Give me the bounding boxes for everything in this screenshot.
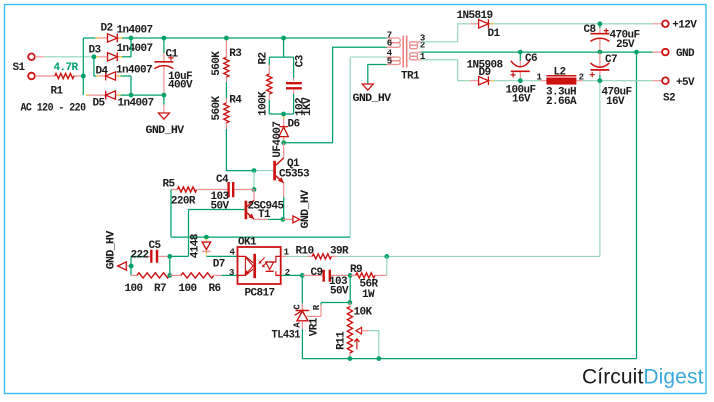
svg-text:220R: 220R: [171, 196, 196, 208]
wire snubber frame: [269, 38, 293, 114]
node C6 top: [518, 50, 523, 55]
wire AC1 from S1 top to bridge: [45, 56, 94, 58]
wire ground link vertical: [130, 256, 132, 275]
svg-text:TL431: TL431: [272, 329, 301, 341]
diode D7 4148: [189, 233, 225, 270]
wire OK1 pin2 to C9: [281, 274, 302, 276]
wire R10-R9 vertical: [386, 256, 388, 275]
svg-text:1KV: 1KV: [302, 97, 314, 116]
wire R4 to Q1 base: [226, 129, 254, 171]
node bridge DC+: [129, 36, 134, 41]
wire C9 node down to node B: [349, 275, 351, 302]
wire L2 to +5V: [583, 80, 653, 82]
node bridge DC-: [129, 93, 134, 98]
resistor R5 220R: [163, 179, 228, 208]
capacitor C7 470uF 16V: [590, 52, 632, 108]
wire node B to TL431 ref: [321, 302, 350, 304]
regulator VR1 TL431: [272, 303, 323, 359]
svg-text:+5V: +5V: [676, 77, 695, 89]
wire TR1 pin3 to D1: [421, 24, 470, 42]
logo CircuitDigest: [582, 366, 704, 389]
svg-text:UF4007: UF4007: [272, 122, 284, 158]
ground GND_HV under C1: [146, 95, 185, 137]
svg-text:C4: C4: [216, 174, 229, 186]
wire +12V rail: [494, 23, 653, 25]
diode D4 1n4007: [94, 64, 152, 95]
svg-text:C5: C5: [149, 240, 162, 252]
resistor R1: [45, 62, 83, 98]
svg-text:C6: C6: [525, 53, 537, 65]
svg-text:4148: 4148: [189, 233, 201, 258]
transistor T1 2SC945: [246, 190, 285, 222]
svg-text:1n4007: 1n4007: [117, 43, 153, 55]
wire T1 base down to C5 row: [170, 210, 189, 257]
node R10 right: [384, 254, 389, 259]
svg-text:D9: D9: [479, 67, 491, 79]
svg-text:1n4007: 1n4007: [116, 64, 152, 76]
svg-text:D1: D1: [488, 28, 501, 40]
svg-text:1n4007: 1n4007: [118, 98, 154, 110]
resistor R9 56R 1W: [350, 264, 387, 301]
connector S1: [13, 54, 86, 115]
wire pin1 to R10: [286, 255, 307, 257]
svg-text:2: 2: [285, 268, 290, 278]
ground GND_HV at T1 emitter: [283, 189, 312, 228]
svg-text:C1: C1: [166, 48, 179, 60]
capacitor C6 100uF 16V: [506, 52, 538, 105]
node C6 bottom: [518, 78, 523, 83]
svg-text:100K: 100K: [257, 91, 269, 116]
node C5 right: [167, 254, 172, 259]
svg-text:25V: 25V: [616, 39, 635, 51]
svg-text:50V: 50V: [330, 286, 349, 298]
svg-text:R6: R6: [209, 283, 221, 295]
diode D1 1N5819: [457, 10, 501, 40]
svg-text:R4: R4: [229, 94, 242, 106]
wire DC+ rail: [131, 37, 387, 39]
svg-text:R9: R9: [350, 264, 362, 276]
wire R11 wiper down: [369, 331, 379, 359]
wire R5 left down: [171, 190, 350, 238]
node D6 anode: [281, 140, 286, 145]
svg-text:OK1: OK1: [238, 237, 257, 249]
svg-text:T1: T1: [258, 209, 271, 221]
svg-text:D6: D6: [288, 119, 300, 131]
node B: [348, 300, 353, 305]
svg-text:GND_HV: GND_HV: [353, 93, 392, 105]
svg-text:S1: S1: [13, 62, 26, 74]
inductor L2 3.3uH 2.66A: [537, 67, 584, 109]
svg-text:D4: D4: [96, 66, 109, 78]
diode D5 1n4007: [86, 91, 154, 110]
transistor Q1 C5353: [275, 143, 310, 220]
optocoupler OK1 PC817: [229, 237, 290, 300]
svg-text:16V: 16V: [512, 93, 531, 105]
node C1 bottom: [162, 93, 167, 98]
node C1 top: [162, 36, 167, 41]
svg-text:D2: D2: [101, 23, 113, 35]
wire TR1 pin5 to ground: [368, 65, 387, 85]
ground GND_HV under TR1: [353, 84, 392, 105]
wire TR1 pin4 to D7 line: [387, 56, 392, 58]
wire bottom ground rail: [302, 52, 636, 359]
svg-text:400V: 400V: [168, 80, 193, 92]
svg-text:R5: R5: [163, 179, 176, 191]
node GND feedback: [634, 50, 639, 55]
svg-text:C7: C7: [605, 54, 617, 66]
node ground left junction: [129, 264, 134, 269]
capacitor C1 10uF 400V: [154, 38, 193, 95]
node R7-R6 junction: [167, 273, 172, 278]
svg-text:R3: R3: [229, 48, 242, 60]
svg-text:D5: D5: [93, 98, 106, 110]
diode D9 1N5908: [467, 59, 504, 85]
capacitor C5 222: [131, 240, 170, 263]
wire D7 to OK1 pin4: [206, 255, 238, 257]
svg-text:560K: 560K: [211, 51, 223, 76]
diode D2 1n4007: [83, 23, 152, 43]
svg-text:D3: D3: [89, 44, 102, 56]
svg-text:16V: 16V: [606, 96, 625, 108]
diode D6 UF4007: [272, 114, 300, 158]
svg-text:4.7R: 4.7R: [54, 62, 79, 74]
resistor R10 39R: [281, 245, 349, 259]
node Q1 base: [252, 168, 257, 173]
capacitor C8 470uF 25V: [584, 24, 640, 52]
node wiper bottom: [376, 356, 381, 361]
resistor R3 560K: [211, 38, 243, 82]
svg-text:560K: 560K: [211, 95, 223, 120]
capacitor C4 103 50V: [211, 174, 255, 213]
wire TR1 pin6 to D6 anode: [284, 47, 387, 143]
svg-text:100: 100: [125, 283, 143, 295]
node R1 junction: [81, 74, 86, 79]
svg-text:GND: GND: [676, 48, 695, 60]
svg-text:C8: C8: [584, 24, 597, 36]
svg-text:1n4007: 1n4007: [117, 25, 153, 37]
svg-text:1N5819: 1N5819: [457, 10, 493, 22]
svg-text:D7: D7: [213, 258, 225, 270]
svg-text:2.66A: 2.66A: [546, 96, 577, 108]
wire T1 base: [189, 209, 245, 211]
potentiometer R11 10K: [336, 303, 373, 359]
svg-text:VR1: VR1: [309, 317, 321, 336]
node D7 top: [204, 235, 209, 240]
capacitor C3 102 1KV: [286, 54, 314, 116]
node R11 bottom: [348, 356, 353, 361]
svg-text:10K: 10K: [354, 307, 373, 319]
svg-text:+12V: +12V: [672, 20, 697, 32]
svg-text:S2: S2: [663, 93, 675, 105]
resistor R2 100K: [257, 52, 272, 115]
node C7 bottom: [598, 78, 603, 83]
node C9 left: [300, 273, 305, 278]
wire TR1 pin1 to D9: [421, 60, 470, 81]
svg-text:PC817: PC817: [245, 287, 275, 299]
wire AC2 vertical: [82, 38, 84, 95]
connector S2: [653, 20, 698, 105]
node AC1 junction: [92, 54, 97, 59]
svg-text:222: 222: [131, 250, 149, 262]
svg-text:C3: C3: [295, 54, 307, 67]
svg-text:GND_HV: GND_HV: [146, 125, 185, 137]
svg-text:L2: L2: [554, 67, 566, 79]
svg-text:TR1: TR1: [401, 71, 420, 83]
wire R3-R4 link: [225, 82, 227, 98]
node snubber bottom: [281, 112, 286, 117]
svg-text:6: 6: [387, 38, 392, 48]
svg-text:5: 5: [387, 57, 392, 67]
svg-text:50V: 50V: [211, 200, 230, 212]
svg-text:C9: C9: [311, 267, 323, 279]
svg-text:3: 3: [229, 268, 234, 278]
svg-text:GND_HV: GND_HV: [105, 230, 117, 269]
svg-text:R2: R2: [257, 52, 269, 64]
ground GND_HV left: [105, 230, 131, 270]
svg-text:R10: R10: [296, 245, 314, 257]
wire DC- rail: [121, 94, 164, 96]
svg-text:1W: 1W: [362, 289, 375, 301]
diode D3 1n4007: [89, 43, 153, 61]
wire C5-R7 link: [169, 256, 171, 275]
node C8 top: [598, 21, 603, 26]
node snubber top: [281, 36, 286, 41]
wire AC1 vertical: [93, 57, 95, 76]
resistor R6 100: [170, 273, 222, 295]
svg-text:C5353: C5353: [279, 169, 310, 181]
svg-text:100: 100: [179, 283, 197, 295]
node R3 top: [224, 36, 229, 41]
wire bridge top vertical: [130, 38, 132, 57]
wire GND rail: [421, 51, 652, 53]
svg-text:GND_HV: GND_HV: [300, 189, 312, 228]
node C9 right / R9: [348, 273, 353, 278]
capacitor C9 103 50V: [302, 267, 350, 298]
node C8-C7 mid: [598, 50, 603, 55]
node C4 junction: [252, 187, 257, 192]
svg-text:39R: 39R: [330, 245, 349, 257]
wire D9 to C6: [494, 80, 541, 82]
wire R10 to +5V feedback: [337, 255, 600, 257]
transformer TR1: [387, 30, 426, 82]
resistor R7 100: [125, 273, 170, 295]
svg-text:R11: R11: [336, 331, 348, 350]
wire +5V feedback vertical: [599, 81, 601, 257]
wire base node down: [253, 171, 255, 201]
svg-text:CírcuitDigest: CírcuitDigest: [582, 366, 704, 389]
svg-text:R7: R7: [154, 283, 166, 295]
wire R6 to OK1 pin3: [222, 274, 239, 276]
svg-text:AC 120 - 220: AC 120 - 220: [21, 103, 86, 115]
resistor R4 560K: [211, 94, 243, 129]
wire TL431 cathode link: [301, 275, 303, 303]
svg-text:R1: R1: [51, 86, 64, 98]
node emitter junction: [281, 217, 286, 222]
